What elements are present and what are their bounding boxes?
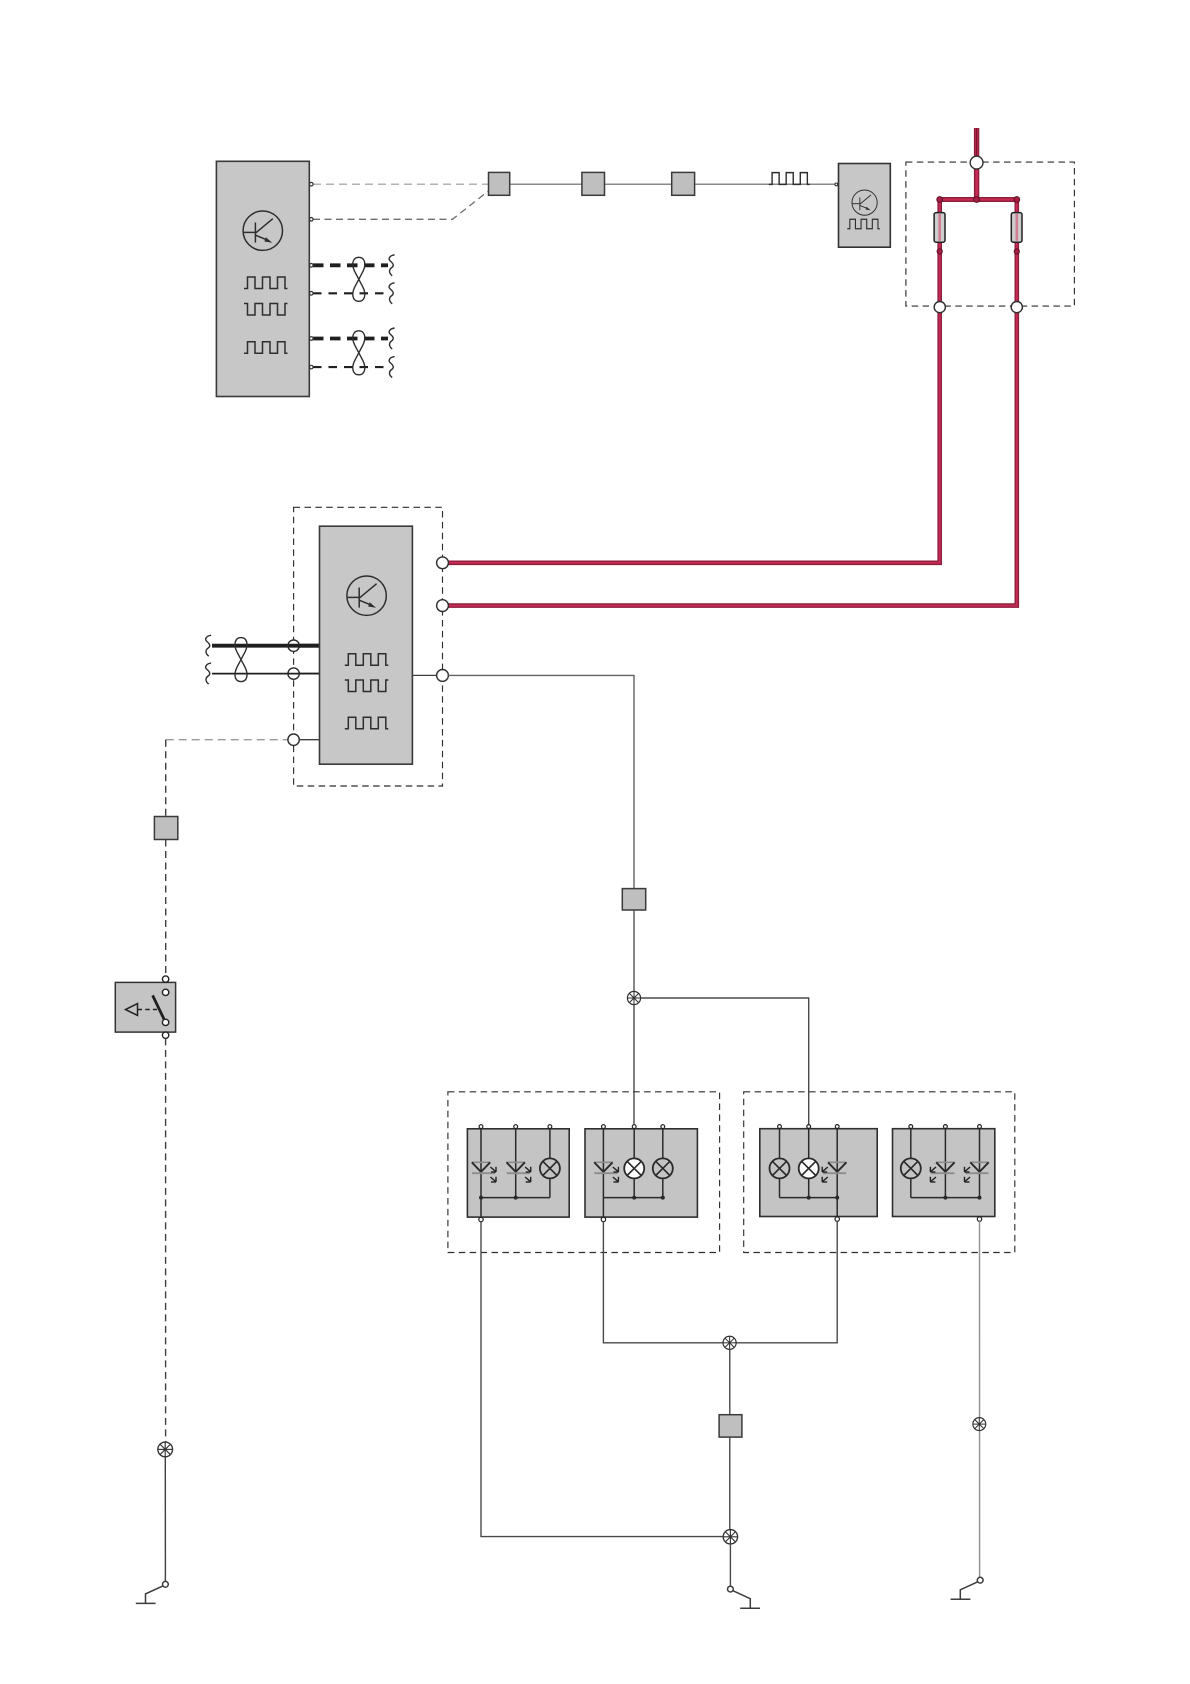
module B pin: [835, 183, 838, 186]
pulse signal symbol on bus wire: [769, 173, 810, 185]
M3 bottom pin: [835, 1217, 839, 1221]
wire: thick black dashed twisted-pair lead A5: [313, 337, 388, 341]
twisted-pair twist symbol 2: [353, 331, 365, 375]
wire: thin black lead across pin L2: [288, 673, 320, 675]
wire: gray bus segment S2-S3: [605, 183, 672, 185]
M3 top pin 3: [835, 1125, 839, 1129]
bulb L4 in M3: [770, 1158, 790, 1178]
ground G1 (left): [136, 1581, 169, 1603]
wire break squiggle C-L1: [206, 635, 211, 656]
wire: thick black twisted-pair lead into module C: [212, 644, 320, 648]
junction dot on bus left: [937, 197, 943, 203]
connector S5: [719, 1415, 742, 1437]
internal bus of M1: [481, 1197, 550, 1199]
wire: from connector S5 down to splice SP2: [729, 1437, 731, 1530]
pulse signal symbol 2 in module C: [345, 680, 389, 692]
connector S6: [154, 817, 177, 840]
splice SP4: [158, 1442, 173, 1457]
module A pin 3: [310, 264, 314, 268]
connector S2: [582, 172, 605, 195]
wire: stub from pin L3 to module C body: [299, 739, 319, 741]
switch SW inner contact bottom: [162, 1019, 168, 1025]
wire: dark dashed down to connector S6: [165, 740, 167, 817]
switch SW inner contact top: [162, 989, 168, 995]
fuse box dashed enclosure: [906, 162, 1075, 306]
M1 top pin 1: [479, 1125, 483, 1129]
M2 top pin 1: [602, 1125, 606, 1129]
bulb L6 in M4: [901, 1158, 921, 1178]
feed wire to M3 bottom pin: [836, 1198, 838, 1218]
wire: from splice SP1 down to lamp module M2: [633, 1005, 635, 1125]
internal bus of M4: [911, 1197, 980, 1199]
switch SW actuator dashed link: [138, 1009, 158, 1011]
splice SP2: [723, 1530, 737, 1544]
wire: gray bus segment S1-S2: [510, 183, 582, 185]
LED D2 in M1: [507, 1162, 531, 1182]
ground G2 (middle): [728, 1586, 761, 1608]
connector C2 on fuse box bottom left: [934, 302, 945, 313]
feed wire to M2 bottom pin: [602, 1198, 604, 1218]
M2 top pin 2: [632, 1125, 636, 1129]
wire: thick black dashed twisted-pair lead A3: [313, 263, 388, 267]
bulb L5 in M3 (lit): [799, 1158, 819, 1178]
wire: from splice SP4 down to left ground: [164, 1457, 166, 1582]
junction dot below fuse F2: [1014, 249, 1019, 254]
transistor symbol in module B: [852, 190, 877, 215]
wire break squiggle A4: [389, 283, 394, 304]
splice SP1: [627, 991, 640, 1004]
M4 top pin 1: [909, 1125, 913, 1129]
left lamp cluster dashed enclosure: [448, 1092, 720, 1253]
LED D5 in M4: [930, 1162, 954, 1182]
wire: from M2 bottom pin down and right to splice SP5: [603, 1222, 723, 1343]
wire: gray bus segment S3 to module B: [695, 183, 835, 185]
wire: thin black twisted-pair lead into module C: [212, 673, 320, 675]
twisted-pair twist symbol at module C: [235, 638, 247, 682]
M4 top pin 2: [944, 1125, 948, 1129]
M2 bottom pin: [601, 1217, 605, 1221]
pulse signal symbol 3 in module C: [345, 717, 389, 729]
wire: from M4 bottom pin down to right ground: [979, 1221, 981, 1577]
switch SW blade: [153, 995, 165, 1020]
wire: red supply feed from top: [974, 128, 979, 156]
switch SW bottom terminal: [162, 1032, 168, 1038]
lamp module M1: [467, 1125, 569, 1222]
connector S1: [489, 172, 510, 195]
M1 top pin 2: [514, 1125, 518, 1129]
LED D4 in M3: [822, 1162, 846, 1182]
wire: red run from fuse F1 to module C pin R1: [448, 303, 939, 563]
wire: red left fuse leg: [937, 200, 942, 304]
wire: from splice SP2 down to middle ground: [729, 1544, 731, 1586]
wire: signal run from pin R3 right then down to connector S4: [448, 675, 634, 888]
connector C1 on fuse box top: [970, 156, 983, 169]
pulse signal symbol 1 in module A: [244, 277, 288, 289]
connector C3 on fuse box bottom right: [1011, 302, 1022, 313]
connector S4: [622, 889, 645, 910]
M1 bottom pin: [479, 1217, 483, 1221]
fuse F2: [1011, 213, 1022, 243]
junction dot below fuse F1: [937, 249, 942, 254]
pulse signal symbol 1 in module C: [345, 654, 389, 666]
control module C body: [320, 526, 413, 764]
wire: from M3 bottom pin down and left to splice SP5: [736, 1221, 837, 1343]
transistor symbol in module A: [243, 211, 282, 250]
wire: from splice SP5 down to connector S5: [729, 1349, 731, 1414]
LED D3 in M2: [594, 1162, 618, 1182]
right lamp cluster dashed enclosure: [744, 1092, 1015, 1253]
wire: from connector S4 down to splice SP1: [633, 910, 635, 991]
M3 top pin 2: [807, 1125, 811, 1129]
wire: from M1 bottom pin down and right to splice SP2: [481, 1222, 723, 1537]
feed wire to M1 bottom pin: [480, 1198, 482, 1218]
fuse F1: [934, 213, 945, 243]
bulb L2 in M2 (lit): [624, 1158, 644, 1178]
module A pin 1: [310, 182, 314, 186]
wire: light gray dashed from module A pin 1 to connector S1: [313, 183, 489, 185]
bulb L3 in M2: [653, 1158, 673, 1178]
switch SW actuator arrow: [126, 1004, 138, 1016]
wire: dark dashed from switch SW down to splice SP4: [165, 1038, 167, 1441]
pulse signal symbol 3 in module A: [244, 342, 288, 354]
module C dashed enclosure: [294, 507, 443, 786]
lamp module M2: [585, 1125, 697, 1222]
module C pin L3: [288, 734, 299, 745]
splice SP3: [973, 1418, 986, 1431]
module C pin R1 (red): [437, 557, 449, 569]
splice SP5: [723, 1336, 736, 1349]
M2 top pin 3: [661, 1125, 665, 1129]
pulse signal symbol in module B: [847, 219, 880, 228]
wire break squiggle C-L2: [206, 663, 211, 684]
wire: black dashed twisted-pair lead A6: [313, 366, 388, 368]
module A pin 4: [310, 292, 314, 296]
bulb L1 in M1: [540, 1158, 560, 1178]
switch SW top terminal: [162, 976, 168, 982]
LED D6 in M4: [965, 1162, 989, 1182]
wire: thick black lead across pin L1: [288, 644, 320, 648]
module A pin 5: [310, 337, 314, 341]
switch SW body: [115, 982, 175, 1032]
wire: red fuse box bus bar: [940, 197, 1017, 202]
wire: gray dashed from module A pin 2 with diagonal to connector S1: [313, 191, 489, 220]
M3 top pin 1: [778, 1125, 782, 1129]
module C pin L1: [288, 640, 299, 651]
module C pin R2 (red): [437, 600, 449, 612]
module A pin 2: [310, 218, 314, 222]
M4 bottom pin: [977, 1217, 981, 1221]
M4 top pin 3: [978, 1125, 982, 1129]
pulse signal symbol 2 in module A: [244, 304, 288, 316]
receiver module B (top right): [839, 164, 891, 248]
internal bus of M2: [603, 1197, 662, 1199]
ground G3 (right): [951, 1577, 984, 1599]
twisted-pair twist symbol 1: [353, 257, 365, 301]
wire: gray dashed from module C pin L3 to the left: [166, 739, 288, 741]
module C pin L2: [288, 668, 299, 679]
wire break squiggle A5: [389, 328, 394, 349]
wire: branch from splice SP1 right then down to lamp module M3: [641, 998, 809, 1125]
lamp module M3: [760, 1125, 877, 1222]
transistor symbol in module C: [347, 576, 386, 615]
wire: red run from fuse F2 to module C pin R2: [448, 303, 1016, 606]
module C pin R3: [437, 670, 449, 682]
wire: dark dashed from S6 down to switch SW: [165, 840, 167, 976]
wire break squiggle A3: [389, 255, 394, 276]
junction dot on bus right: [1014, 197, 1020, 203]
wire: black dashed twisted-pair lead A4: [313, 292, 388, 294]
internal bus of M3: [780, 1197, 838, 1199]
wire: stub from module C body to pin R3: [412, 674, 436, 676]
module A pin 6: [310, 365, 314, 369]
wire: red feed below connector C1 to fuse bus: [974, 169, 979, 201]
wire break squiggle A6: [389, 357, 394, 378]
connector S3: [672, 172, 695, 195]
M1 top pin 3: [548, 1125, 552, 1129]
lamp module M4: [893, 1125, 995, 1222]
junction dot on bus centre: [974, 197, 980, 203]
wire: red right fuse leg: [1014, 200, 1019, 304]
LED D1 in M1: [472, 1162, 496, 1182]
control module A (top left): [216, 161, 309, 396]
